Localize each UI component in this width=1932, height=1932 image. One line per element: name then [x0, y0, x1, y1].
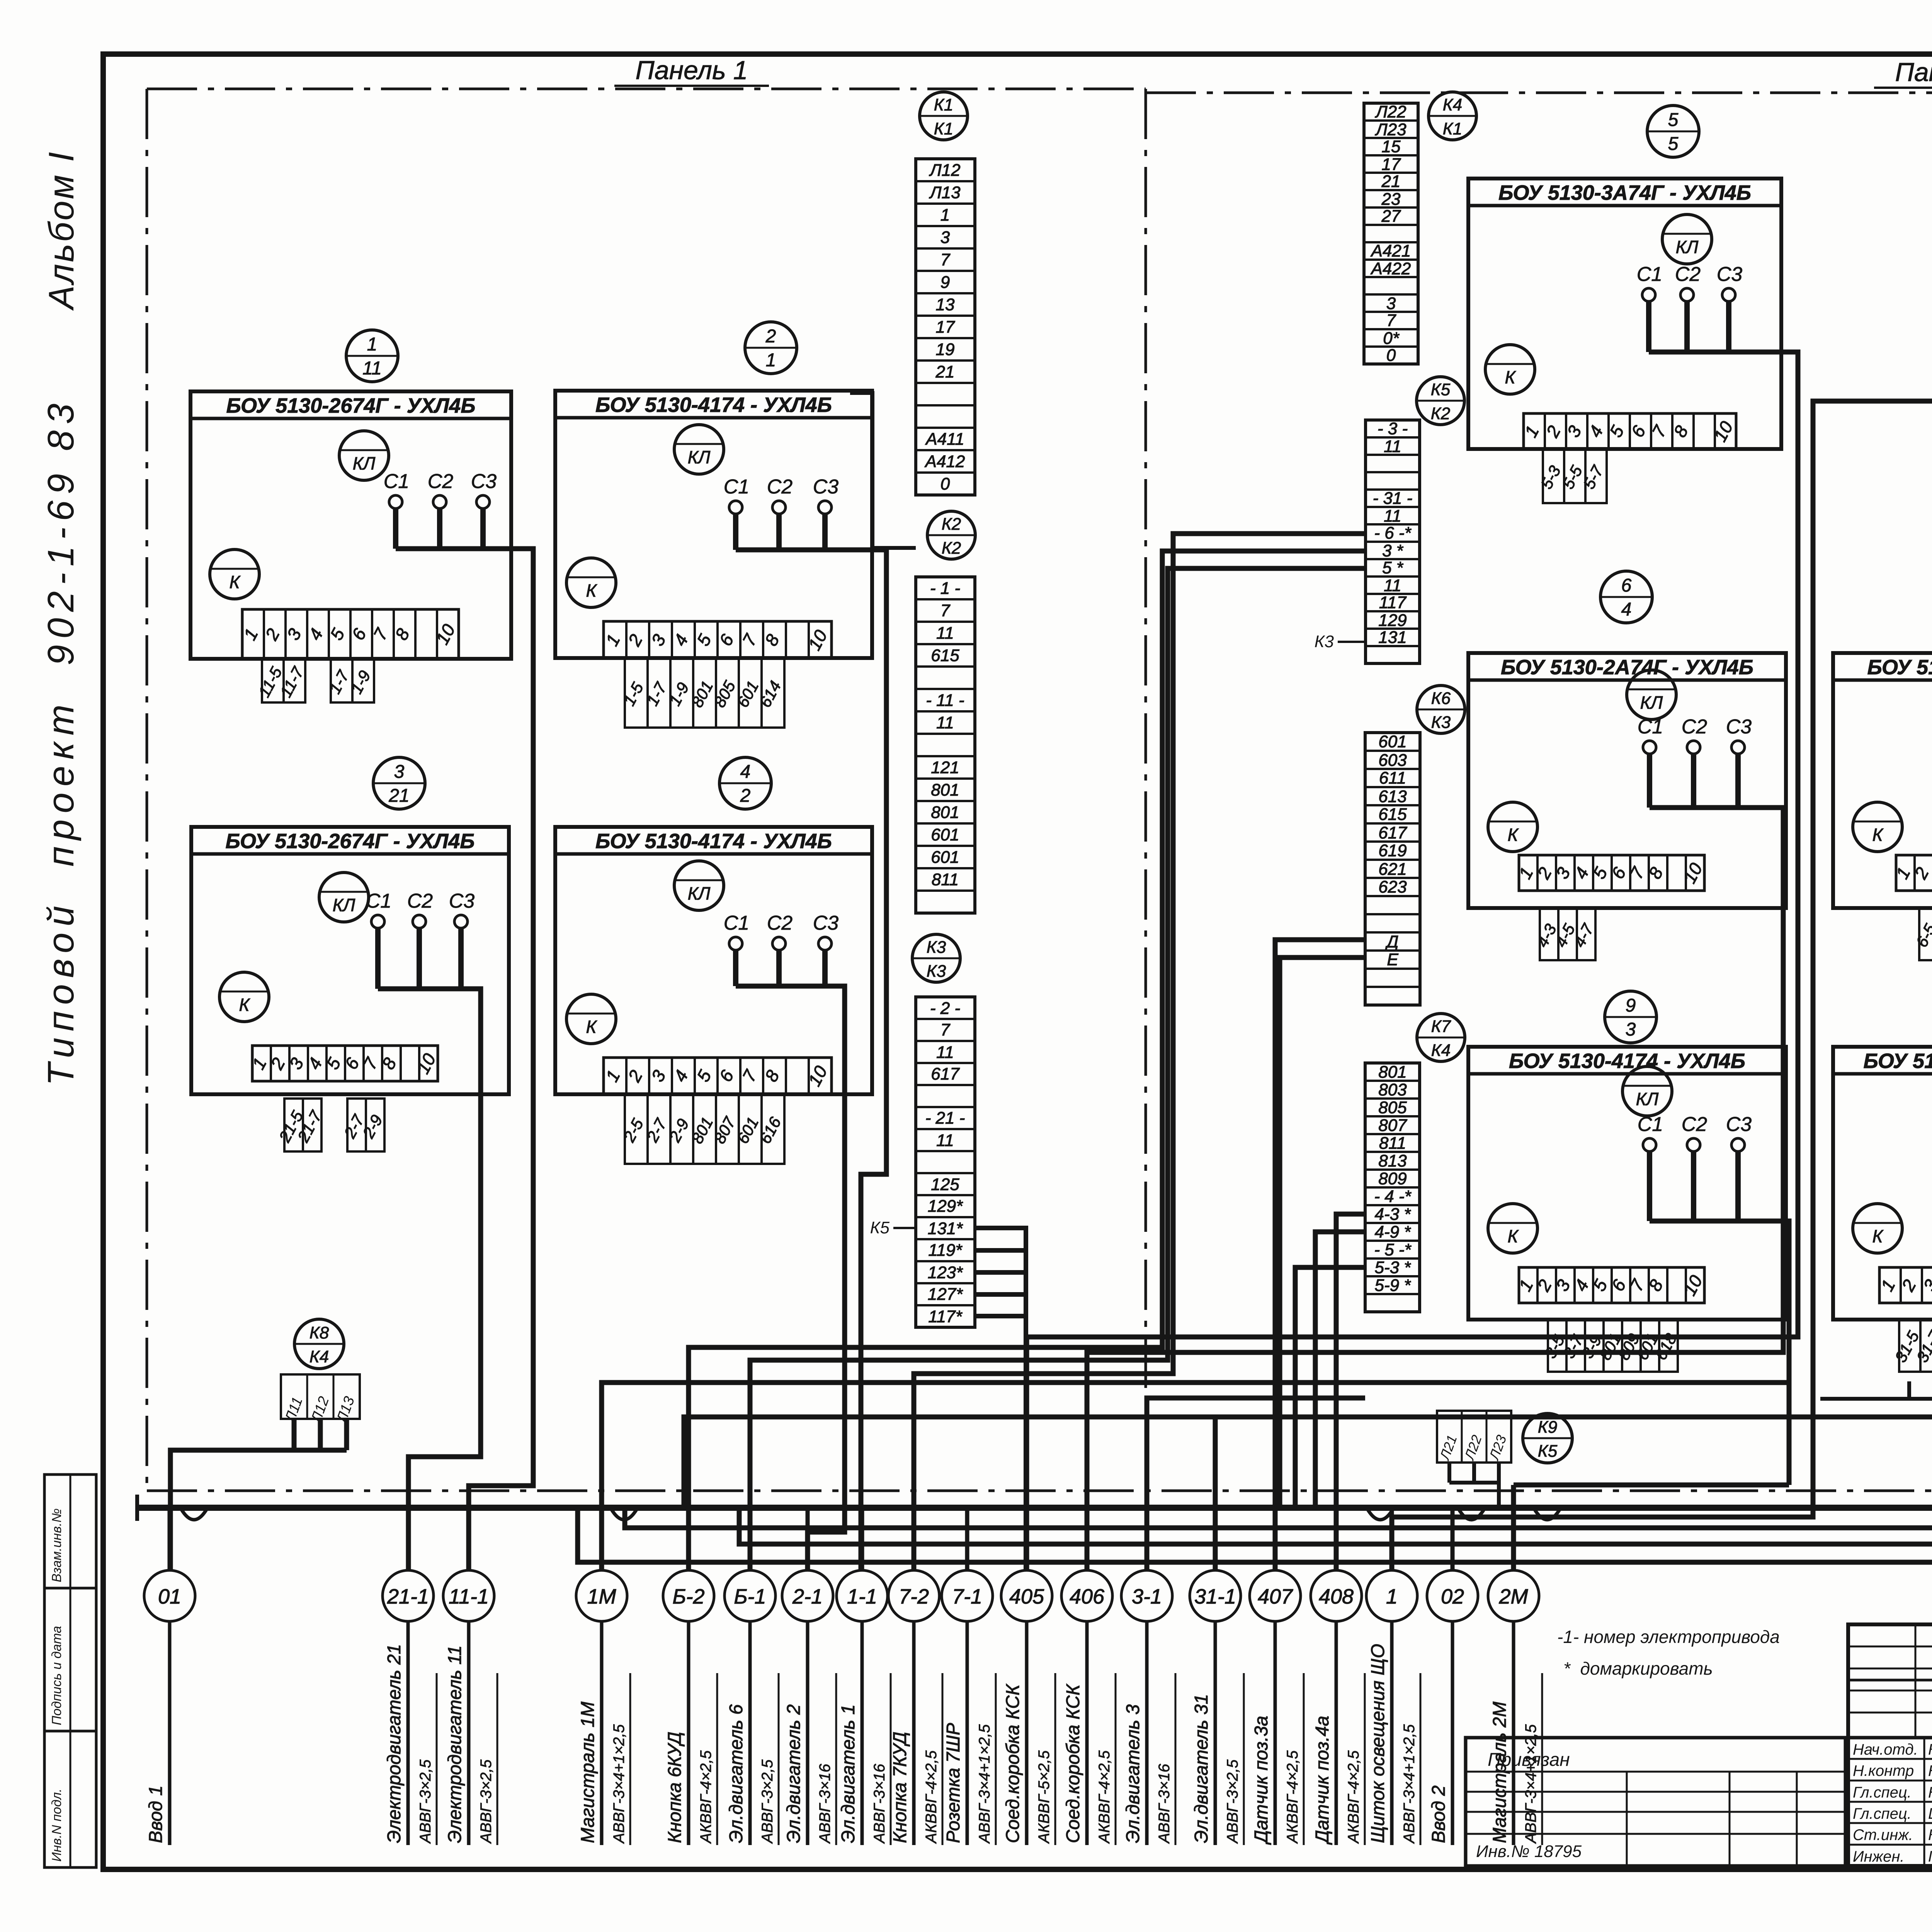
svg-text:809: 809 [1378, 1169, 1406, 1188]
svg-text:406: 406 [1070, 1585, 1105, 1608]
svg-text:Соед.коробка КСК: Соед.коробка КСК [1063, 1684, 1083, 1843]
wire unit A4 C-group to node 2-1 [736, 986, 845, 1570]
svg-text:119*: 119* [928, 1241, 963, 1260]
terminal strip К5 [1366, 377, 1464, 663]
wire К9 stub Л22 [1472, 1463, 1476, 1483]
svg-text:21: 21 [388, 786, 409, 806]
svg-text:11: 11 [936, 1043, 954, 1062]
svg-text:Л23: Л23 [1374, 120, 1406, 139]
svg-text:Датчик поз.4а: Датчик поз.4а [1312, 1716, 1333, 1845]
svg-text:К5: К5 [1538, 1442, 1558, 1461]
svg-text:407: 407 [1258, 1585, 1293, 1608]
panel 2 boundary (dash-dot) [1146, 93, 1932, 1491]
svg-text:АВВГ-3×4+1×2,5: АВВГ-3×4+1×2,5 [611, 1724, 628, 1844]
svg-text:803: 803 [1378, 1080, 1407, 1099]
svg-text:АВВГ-3×16: АВВГ-3×16 [816, 1764, 833, 1844]
svg-text:0: 0 [1386, 346, 1396, 365]
svg-text:1М: 1М [587, 1585, 616, 1608]
svg-text:С2: С2 [767, 912, 793, 934]
wire node 408 to strip К7 cell 4-3* [1336, 1214, 1365, 1570]
svg-text:129: 129 [1378, 611, 1406, 630]
panel 1 boundary (dash-dot) [147, 89, 1932, 1491]
svg-text:БОУ 5130-2674Г - УХЛ4Б: БОУ 5130-2674Г - УХЛ4Б [226, 394, 475, 417]
svg-text:117: 117 [1379, 593, 1407, 612]
svg-text:С1: С1 [1638, 1113, 1663, 1136]
svg-text:АВВГ-3×4+1×2,5: АВВГ-3×4+1×2,5 [1522, 1724, 1539, 1844]
svg-text:5-3 *: 5-3 * [1375, 1258, 1412, 1277]
svg-text:131: 131 [1378, 628, 1406, 647]
svg-text:С1: С1 [1637, 263, 1662, 286]
wire strip К1 to strip К2 link [850, 393, 916, 548]
svg-text:Королева: Королева [1928, 1827, 1932, 1844]
node 408 (Датчик поз.4а) [1311, 1508, 1365, 1845]
svg-text:К7: К7 [1431, 1017, 1451, 1036]
wire node 31-1 riser [1213, 1417, 1218, 1570]
svg-text:5: 5 [1668, 110, 1679, 130]
stamp column (left margin boxes) [44, 1475, 96, 1867]
wire strip К3 cell 127* stub [975, 1292, 1026, 1297]
svg-text:С2: С2 [767, 476, 793, 498]
bus hop arc [1534, 1509, 1560, 1520]
svg-text:11: 11 [1384, 576, 1401, 595]
svg-text:17: 17 [1382, 155, 1401, 174]
node 21-1 (Электродвигатель 21) [383, 1508, 437, 1845]
svg-text:Эл.двигатель 1: Эл.двигатель 1 [838, 1704, 859, 1843]
svg-text:123*: 123* [928, 1263, 963, 1282]
svg-text:- 2 -: - 2 - [930, 999, 960, 1018]
svg-text:С3: С3 [1726, 716, 1752, 738]
wire К8 stub Л12 [318, 1419, 323, 1450]
svg-text:С1: С1 [724, 476, 749, 498]
wire node Б-1 to strip К5 cell 5* [750, 568, 1366, 1570]
svg-text:КЛ: КЛ [353, 453, 376, 473]
svg-text:3-1: 3-1 [1132, 1585, 1162, 1608]
svg-text:Шутилов: Шутилов [1928, 1805, 1932, 1822]
svg-text:КЛ: КЛ [333, 895, 355, 915]
svg-text:- 6 -*: - 6 -* [1374, 524, 1412, 543]
svg-text:АВВГ-3×2,5: АВВГ-3×2,5 [478, 1759, 495, 1844]
svg-text:АКВВГ-4×2,5: АКВВГ-4×2,5 [1284, 1750, 1301, 1844]
wire unit A6 C-group to node 406 [1087, 808, 1783, 1570]
svg-text:- 31 -: - 31 - [1373, 489, 1413, 508]
svg-text:К4: К4 [1431, 1041, 1451, 1060]
svg-text:Е: Е [1387, 950, 1398, 969]
svg-text:- 5 -*: - 5 -* [1374, 1240, 1412, 1259]
wire unit A8 C-group to bus (lower run 3) [578, 795, 1932, 1562]
svg-text:807: 807 [1378, 1116, 1407, 1135]
svg-text:3: 3 [1626, 1019, 1636, 1040]
svg-text:Д: Д [1385, 932, 1399, 951]
svg-text:АВВГ-3×16: АВВГ-3×16 [1156, 1764, 1173, 1844]
unit A3 (БОУ 5130-2674Г - УХЛ4Б) designator 3/21 [191, 757, 509, 1151]
svg-text:11: 11 [936, 713, 954, 732]
title block [1848, 1624, 1932, 1866]
svg-text:0*: 0* [1383, 329, 1400, 348]
svg-text:БОУ 5130-2674Г - УХЛ4Б: БОУ 5130-2674Г - УХЛ4Б [1863, 1049, 1932, 1073]
svg-text:4-3 *: 4-3 * [1375, 1205, 1412, 1224]
svg-text:Привязан: Привязан [1488, 1750, 1570, 1770]
svg-text:127*: 127* [928, 1285, 963, 1304]
svg-text:К5: К5 [1431, 380, 1451, 399]
svg-text:2-1: 2-1 [792, 1585, 823, 1608]
svg-text:121: 121 [931, 758, 959, 777]
svg-text:Эл.двигатель 2: Эл.двигатель 2 [784, 1704, 804, 1843]
svg-text:С3: С3 [813, 476, 839, 498]
svg-text:К4: К4 [1443, 95, 1462, 114]
svg-text:21: 21 [1381, 172, 1401, 191]
label Панель 1 [614, 56, 769, 86]
svg-text:Щиток освещения ЩО: Щиток освещения ЩО [1368, 1644, 1388, 1843]
wire strip К3 cell 123* stub [975, 1270, 1026, 1275]
svg-text:3: 3 [1386, 294, 1396, 313]
svg-text:13: 13 [936, 295, 955, 314]
svg-text:Инв.N подл.: Инв.N подл. [49, 1789, 64, 1862]
svg-text:* домаркировать: * домаркировать [1563, 1658, 1713, 1679]
svg-text:БОУ 5130-2674Г - УХЛ4Б: БОУ 5130-2674Г - УХЛ4Б [225, 830, 474, 853]
svg-text:Взам.инв.№: Взам.инв.№ [49, 1509, 64, 1582]
svg-text:АВВГ-3×16: АВВГ-3×16 [871, 1764, 888, 1844]
svg-text:Кулагин: Кулагин [1928, 1741, 1932, 1758]
wire unit A2 C-group to node 1-1 [736, 550, 886, 1570]
unit A4 (БОУ 5130-4174 - УХЛ4Б) designator 4/2 [555, 757, 872, 1164]
svg-text:- 21 -: - 21 - [925, 1109, 965, 1128]
svg-text:7: 7 [940, 601, 951, 620]
svg-text:- 4 -*: - 4 -* [1374, 1187, 1412, 1206]
svg-text:Гл.спец.: Гл.спец. [1853, 1784, 1912, 1801]
svg-text:К1: К1 [1443, 119, 1462, 138]
svg-text:А421: А421 [1370, 241, 1411, 260]
svg-text:БОУ 5130-3А74Г - УХЛ4Б: БОУ 5130-3А74Г - УХЛ4Б [1498, 181, 1751, 204]
svg-text:АВВГ-3×2,5: АВВГ-3×2,5 [417, 1759, 434, 1844]
node 2М (Магистраль 2М) [1488, 1508, 1542, 1845]
svg-text:603: 603 [1378, 751, 1407, 770]
svg-text:805: 805 [1378, 1098, 1407, 1117]
lamp terminal box К9 (Л21 Л22 Л23) [1436, 1411, 1572, 1463]
svg-text:131*: 131* [928, 1219, 963, 1238]
terminal strip К7 [1365, 1014, 1465, 1312]
svg-text:Эл.двигатель 31: Эл.двигатель 31 [1191, 1694, 1212, 1843]
svg-text:К8: К8 [310, 1323, 329, 1342]
svg-text:Кнопка 7КУД: Кнопка 7КУД [890, 1732, 910, 1843]
wire unit A9 C-group down [1650, 1221, 1789, 1485]
svg-text:С1: С1 [366, 890, 391, 912]
svg-text:619: 619 [1378, 841, 1406, 860]
node 1М (Магистраль 1М) [576, 1508, 630, 1845]
svg-text:129*: 129* [928, 1197, 963, 1216]
terminal strip К2 [916, 511, 975, 913]
svg-text:7-1: 7-1 [952, 1585, 982, 1608]
node Б-1 (Эл.двигатель 6) [724, 1508, 779, 1845]
svg-text:801: 801 [931, 803, 959, 822]
svg-text:Л13: Л13 [929, 183, 961, 202]
svg-text:Кнопка 6КУД: Кнопка 6КУД [665, 1732, 685, 1843]
unit A5 (БОУ 5130-3А74Г - УХЛ4Б) designator 5/5 [1468, 105, 1781, 503]
svg-text:1: 1 [1386, 1585, 1398, 1608]
legend note [1557, 1627, 1780, 1679]
node 31-1 (Эл.двигатель 31) [1190, 1508, 1244, 1845]
svg-text:Инжен.: Инжен. [1853, 1848, 1905, 1865]
wire К8 stub Л13 [344, 1419, 349, 1450]
wire unit A8 hang cells to bus (lower run 2) [739, 955, 1932, 1544]
svg-text:КЛ: КЛ [1636, 1089, 1659, 1109]
svg-text:23: 23 [1381, 190, 1401, 209]
svg-text:- 1 -: - 1 - [930, 579, 960, 598]
svg-text:Электродвигатель 21: Электродвигатель 21 [384, 1644, 405, 1843]
svg-text:К3: К3 [1431, 713, 1451, 732]
node 11-1 (Электродвигатель 11) [443, 1508, 497, 1845]
svg-text:АВВГ-3×2,5: АВВГ-3×2,5 [1224, 1759, 1241, 1844]
svg-text:601: 601 [1378, 732, 1406, 751]
svg-text:02: 02 [1441, 1585, 1464, 1608]
rotated project caption [40, 150, 82, 1086]
node 1-1 (Эл.двигатель 1) [837, 1508, 891, 1845]
svg-text:АКВВГ-4×2,5: АКВВГ-4×2,5 [1096, 1750, 1113, 1844]
svg-text:Альбом I: Альбом I [42, 150, 81, 311]
svg-text:11-1: 11-1 [449, 1585, 489, 1608]
wire strip К3 cell 119* stub [975, 1248, 1026, 1253]
node 407 (Датчик поз.3а) [1250, 1508, 1304, 1845]
svg-text:Некрасов: Некрасов [1928, 1784, 1932, 1801]
node 7-2 (Кнопка 7КУД) [888, 1508, 942, 1845]
svg-text:1: 1 [367, 334, 378, 355]
svg-text:БОУ 5130-2А74Г - УХЛ4Б: БОУ 5130-2А74Г - УХЛ4Б [1501, 656, 1753, 679]
wire strip К3 cell 131* to node 405 [975, 1228, 1026, 1570]
svg-text:601: 601 [931, 848, 959, 867]
svg-text:Ввод 2: Ввод 2 [1429, 1786, 1449, 1843]
svg-text:3 *: 3 * [1382, 541, 1404, 560]
svg-text:7: 7 [1386, 311, 1396, 330]
svg-text:С3: С3 [1726, 1113, 1752, 1136]
svg-text:АВВГ-3×2,5: АВВГ-3×2,5 [759, 1759, 776, 1844]
svg-text:БОУ 5130-4174 - УХЛ4Б: БОУ 5130-4174 - УХЛ4Б [1509, 1049, 1745, 1073]
svg-text:Магистраль 1М: Магистраль 1М [578, 1702, 598, 1843]
lamp terminal box К8 (Л11 Л12 Л13) [281, 1319, 360, 1426]
svg-text:К6: К6 [1431, 689, 1451, 708]
svg-text:1-1: 1-1 [847, 1585, 877, 1608]
svg-text:К3: К3 [927, 938, 946, 957]
wire node 3-1 to strip К7 [1147, 1398, 1365, 1570]
svg-text:617: 617 [1378, 823, 1407, 842]
label К5 pointer at strip К3 [870, 1218, 916, 1237]
svg-text:615: 615 [931, 646, 959, 665]
wire node 7-2 to strip К5 cell -6- [914, 534, 1366, 1570]
label Панель 2 [1874, 58, 1932, 88]
svg-text:К1: К1 [934, 95, 953, 114]
svg-text:КЛ: КЛ [1640, 692, 1663, 713]
svg-text:2: 2 [765, 326, 776, 347]
svg-text:Панель 1: Панель 1 [636, 56, 748, 85]
svg-text:АВВГ-3×4+1×2,5: АВВГ-3×4+1×2,5 [1401, 1724, 1418, 1844]
svg-text:С2: С2 [407, 890, 433, 912]
svg-text:Л12: Л12 [929, 161, 960, 180]
svg-text:3: 3 [940, 228, 950, 247]
wire lamp box К8 to node 01 [170, 1450, 347, 1570]
wire unit A10 C-group to node 31-1 [684, 1184, 1932, 1508]
svg-text:АКВВГ-4×2,5: АКВВГ-4×2,5 [697, 1750, 714, 1844]
node 1 (Щиток освещения ЩО) [1366, 1508, 1420, 1845]
svg-text:0: 0 [940, 474, 950, 493]
svg-text:КЛ: КЛ [1676, 237, 1699, 257]
svg-text:801: 801 [931, 781, 959, 799]
svg-text:21: 21 [935, 362, 955, 381]
svg-text:К: К [586, 580, 597, 600]
svg-text:Гл.спец.: Гл.спец. [1853, 1805, 1912, 1822]
svg-text:А411: А411 [925, 430, 964, 449]
wire strip К3 cell 117* stub [975, 1314, 1026, 1318]
terminal strip К6 [1365, 685, 1465, 1005]
svg-text:11: 11 [1384, 437, 1401, 456]
svg-text:А412: А412 [924, 452, 965, 471]
svg-text:АКВВГ-4×2,5: АКВВГ-4×2,5 [923, 1750, 940, 1844]
svg-text:6: 6 [1621, 575, 1632, 596]
svg-text:4: 4 [740, 762, 751, 782]
node 2-1 (Эл.двигатель 2) [782, 1508, 836, 1845]
svg-text:КЛ: КЛ [688, 883, 711, 903]
svg-text:АКВВГ-5×2,5: АКВВГ-5×2,5 [1036, 1750, 1053, 1844]
svg-text:611: 611 [1379, 769, 1406, 787]
svg-text:С2: С2 [1675, 263, 1701, 286]
svg-text:Нач.отд.: Нач.отд. [1853, 1741, 1918, 1758]
svg-text:Датчик поз.3а: Датчик поз.3а [1251, 1716, 1272, 1845]
svg-text:Эл.двигатель 3: Эл.двигатель 3 [1123, 1704, 1143, 1843]
bus hop arc [1458, 1509, 1485, 1520]
svg-text:801: 801 [1378, 1063, 1406, 1082]
svg-text:К1: К1 [934, 119, 953, 138]
svg-text:811: 811 [1379, 1134, 1406, 1153]
svg-text:С1: С1 [384, 470, 409, 493]
svg-text:Б-2: Б-2 [672, 1585, 704, 1608]
svg-text:125: 125 [931, 1175, 959, 1194]
label К3 pointer at strip К5 [1315, 632, 1366, 651]
svg-text:613: 613 [1378, 787, 1407, 806]
svg-text:С2: С2 [1682, 1113, 1708, 1136]
wire strip К7 cell 4-9* drop [1315, 1232, 1365, 1508]
svg-text:К: К [1507, 1226, 1519, 1246]
node 405 (Соед.коробка КСК) [1001, 1508, 1055, 1845]
svg-text:19: 19 [936, 340, 955, 359]
title block left part (Привязан) [1466, 1738, 1845, 1866]
svg-text:405: 405 [1009, 1585, 1044, 1608]
bus hop arc [181, 1509, 207, 1520]
wire unit A5 C-group to node 405 [1027, 352, 1798, 1570]
wire unit A10 hang stub 1 [1907, 1381, 1911, 1399]
svg-text:К4: К4 [310, 1347, 329, 1366]
svg-text:С3: С3 [449, 890, 475, 912]
svg-text:4: 4 [1621, 599, 1632, 620]
svg-text:-1- номер электропривода: -1- номер электропривода [1557, 1627, 1780, 1647]
unit A6 (БОУ 5130-2А74Г - УХЛ4Б) designator 6/4 [1468, 571, 1786, 960]
bus hop arc [1367, 1509, 1393, 1520]
svg-text:813: 813 [1378, 1151, 1407, 1170]
svg-text:408: 408 [1319, 1585, 1354, 1608]
svg-text:01: 01 [158, 1585, 181, 1608]
svg-text:АВВГ-3×4+1×2,5: АВВГ-3×4+1×2,5 [976, 1724, 993, 1844]
svg-text:9: 9 [1626, 995, 1636, 1016]
svg-text:А422: А422 [1370, 259, 1411, 278]
svg-text:Подпись и дата: Подпись и дата [49, 1626, 64, 1725]
wire node 2М riser [1514, 1483, 1789, 1488]
svg-text:С1: С1 [1638, 716, 1663, 738]
unit A7 (БОУ 5130-2474Г - УХЛ4Б) designator 7/6 [1833, 571, 1932, 960]
svg-text:К9: К9 [1538, 1418, 1557, 1437]
svg-text:К2: К2 [942, 515, 961, 534]
svg-text:КЛ: КЛ [688, 447, 711, 467]
svg-text:К: К [1872, 1226, 1884, 1246]
svg-text:15: 15 [1382, 137, 1401, 156]
svg-text:17: 17 [936, 318, 955, 337]
wire unit A1 C-group to node 11-1 [396, 549, 533, 1570]
svg-text:601: 601 [931, 825, 959, 844]
wire К9 stub Л23 [1497, 1463, 1501, 1483]
svg-text:Соед.коробка КСК: Соед.коробка КСК [1003, 1684, 1023, 1843]
svg-text:1: 1 [766, 350, 776, 371]
svg-text:К: К [1505, 367, 1516, 387]
svg-text:Ст.инж.: Ст.инж. [1853, 1827, 1913, 1844]
svg-text:С3: С3 [1717, 263, 1743, 286]
wire junction A9 to node 1М [602, 1383, 1789, 1570]
svg-text:5-9 *: 5-9 * [1375, 1276, 1412, 1295]
svg-text:117*: 117* [928, 1307, 963, 1326]
unit A1 (БОУ 5130-2674Г - УХЛ4Б) designator 1/11 [190, 330, 511, 702]
svg-text:2: 2 [740, 786, 751, 806]
bus hop arc [611, 1509, 637, 1520]
svg-text:БОУ 5130-2474Г - УХЛ4Б: БОУ 5130-2474Г - УХЛ4Б [1867, 656, 1932, 679]
svg-text:К: К [229, 572, 241, 592]
svg-text:3: 3 [394, 762, 405, 782]
svg-text:С2: С2 [1682, 716, 1708, 738]
svg-text:С2: С2 [428, 470, 454, 493]
node Б-2 (Кнопка 6КУД) [663, 1508, 717, 1845]
svg-text:Типовой проект 902-1-69 83: Типовой проект 902-1-69 83 [40, 397, 82, 1086]
svg-text:Панель 2: Панель 2 [1895, 58, 1932, 87]
wire strip К7 cell 5-3* drop [1295, 1267, 1365, 1508]
svg-text:Розетка 7ШР: Розетка 7ШР [943, 1723, 964, 1843]
wire unit A3 C-group to node 21-1 [378, 989, 481, 1570]
svg-text:27: 27 [1381, 207, 1401, 226]
svg-text:811: 811 [932, 870, 959, 889]
svg-text:К: К [586, 1017, 597, 1037]
svg-text:621: 621 [1378, 860, 1406, 879]
svg-text:Электродвигатель 11: Электродвигатель 11 [445, 1645, 465, 1843]
node 406 (Соед.коробка КСК) [1061, 1508, 1116, 1845]
svg-text:4-9 *: 4-9 * [1375, 1223, 1412, 1242]
svg-text:К2: К2 [1431, 404, 1450, 423]
node 02 (Ввод 2) [1427, 1508, 1478, 1845]
svg-text:Л22: Л22 [1374, 102, 1406, 121]
svg-text:Потоцкий: Потоцкий [1928, 1848, 1932, 1865]
wire under unit A10 hang cells [1820, 1397, 1932, 1401]
node 7-1 (Розетка 7ШР) [942, 1508, 996, 1845]
bus line (магистраль) [137, 1495, 1932, 1521]
unit A10 (БОУ 5130-2674Г - УХЛ4Б) designator 10/31 [1833, 991, 1932, 1372]
svg-text:К5: К5 [870, 1218, 890, 1237]
terminal strip К3 [912, 934, 975, 1327]
svg-text:5: 5 [1668, 134, 1679, 154]
svg-text:7: 7 [940, 1020, 951, 1039]
node 01 (Ввод 1) [144, 1508, 195, 1845]
svg-text:АКВВГ-4×2,5: АКВВГ-4×2,5 [1345, 1750, 1362, 1844]
unit A2 (БОУ 5130-4174 - УХЛ4Б) designator 2/1 [555, 322, 872, 728]
svg-text:11: 11 [936, 1131, 954, 1150]
svg-text:К2: К2 [942, 539, 961, 558]
svg-text:5 *: 5 * [1382, 558, 1404, 577]
svg-text:С3: С3 [813, 912, 839, 934]
terminal strip К4 [1364, 92, 1476, 365]
svg-text:11: 11 [362, 358, 382, 379]
wire К9 collector [1449, 1483, 1499, 1508]
svg-text:Инв.№ 18795: Инв.№ 18795 [1476, 1842, 1582, 1861]
svg-text:К: К [1872, 825, 1884, 845]
